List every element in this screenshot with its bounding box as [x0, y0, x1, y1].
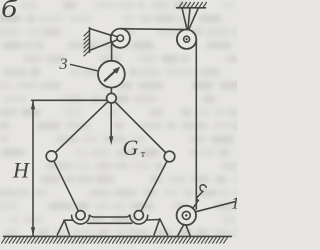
- svg-text:т: т: [141, 149, 146, 160]
- svg-text:1: 1: [231, 194, 237, 213]
- svg-text:б: б: [1, 0, 19, 23]
- svg-text:3: 3: [59, 56, 68, 73]
- svg-text:H: H: [12, 158, 30, 183]
- svg-text:G: G: [123, 135, 139, 160]
